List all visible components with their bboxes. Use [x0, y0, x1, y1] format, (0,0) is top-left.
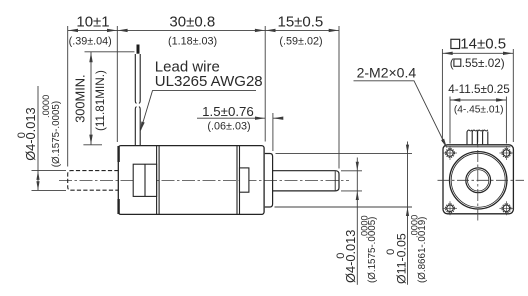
- svg-text:(: (: [450, 57, 454, 70]
- dim line 11.5: [450, 99, 506, 101]
- shaft circle: [468, 170, 489, 191]
- side view centerline: [59, 179, 349, 181]
- boss circle: [466, 168, 491, 193]
- 300MIN bottom tick: [83, 144, 102, 146]
- extension line A (rear shaft end): [67, 26, 69, 167]
- shaft top extension: [341, 170, 362, 172]
- svg-text:0: 0: [335, 253, 347, 259]
- left dia4 arrows: [36, 171, 39, 180]
- svg-text:0: 0: [16, 132, 28, 138]
- left dia4 dim line: [37, 86, 39, 190]
- joint line can/front housing: [236, 146, 238, 215]
- text □14±0.5: [451, 39, 460, 48]
- svg-text:UL3265 AWG28: UL3265 AWG28: [155, 73, 263, 90]
- arrows dim 10: [68, 29, 78, 32]
- front view horizontal centerline: [438, 179, 525, 181]
- boss top extension: [276, 153, 413, 155]
- right dia4 arrows: [356, 162, 359, 171]
- svg-text:1.5±0.76: 1.5±0.76: [202, 104, 254, 119]
- rear recess rectangle: [133, 164, 156, 196]
- screw hole M2 #1: [447, 150, 454, 157]
- svg-text:30±0.8: 30±0.8: [169, 13, 215, 30]
- hidden rear shaft (dashed): [68, 171, 119, 191]
- svg-text:(11.81MIN.): (11.81MIN.): [94, 70, 107, 131]
- extension line C (body right / boss face): [264, 26, 266, 142]
- svg-text:(4-.45±.01): (4-.45±.01): [454, 104, 504, 115]
- svg-text:.55±.02): .55±.02): [462, 57, 505, 70]
- flange top inner edge: [446, 146, 511, 148]
- dim line 1.5 left part: [197, 117, 265, 119]
- svg-text:10±1: 10±1: [76, 13, 109, 30]
- top dimension line: [68, 29, 339, 31]
- dia11 dim line: [407, 142, 409, 285]
- 2-M2 leader: [354, 81, 447, 147]
- right dia4 dim line: [356, 158, 358, 285]
- screw hole M2 #2: [503, 150, 510, 157]
- 300MIN dimension line: [90, 52, 92, 145]
- svg-text:.0000: .0000: [41, 95, 51, 118]
- svg-text:.0000: .0000: [410, 215, 420, 238]
- lead wire leader: [141, 91, 257, 131]
- rear shaft top extension: [32, 170, 67, 172]
- body left edge thick segments: [117, 146, 119, 162]
- dim line 14: [442, 52, 513, 54]
- extension line B (body left): [116, 26, 118, 142]
- svg-text:(.06±.03): (.06±.03): [207, 121, 250, 133]
- pilot boss: [265, 154, 273, 208]
- front view flange square: [443, 145, 513, 214]
- extension line D (shaft tip): [338, 26, 340, 169]
- pilot circle outer: [450, 152, 507, 209]
- front view vertical centerline: [477, 131, 479, 224]
- svg-text:14±0.5: 14±0.5: [460, 36, 506, 53]
- lead wire bundle (front view): [466, 132, 468, 145]
- svg-text:(1.18±.03): (1.18±.03): [168, 36, 217, 48]
- lead wire insulation: [135, 54, 140, 103]
- svg-text:0: 0: [385, 249, 397, 255]
- svg-text:.0000: .0000: [359, 215, 369, 238]
- dia11 arrows: [406, 145, 409, 154]
- svg-text:4-11.5±0.25: 4-11.5±0.25: [448, 83, 510, 96]
- screw hole M2 #4: [503, 205, 510, 212]
- svg-text:300MIN.: 300MIN.: [72, 74, 87, 122]
- svg-text:(Ø.1575-.0005): (Ø.1575-.0005): [51, 101, 62, 167]
- rear shaft bottom extension: [32, 189, 67, 191]
- front ext line left: [441, 49, 443, 142]
- front ext line right: [512, 49, 514, 142]
- arrows dim 30: [118, 29, 128, 32]
- svg-text:15±0.5: 15±0.5: [278, 13, 324, 30]
- gearbox body outline: [118, 146, 264, 215]
- shaft chamfer line: [334, 171, 336, 190]
- svg-text:2-M2×0.4: 2-M2×0.4: [357, 65, 417, 81]
- output shaft: [273, 171, 339, 191]
- ext line boss rear face: [272, 113, 274, 151]
- dim line 1.5 right part: [273, 117, 281, 119]
- arrows dim 15: [266, 29, 276, 32]
- svg-text:Ø11-0.05: Ø11-0.05: [395, 233, 409, 284]
- joint line rear endbell/can: [156, 146, 158, 215]
- front recess rectangle: [240, 168, 249, 192]
- screw hole M2 #3: [447, 205, 454, 212]
- pilot circle inner: [451, 153, 505, 207]
- ext lines 11.5: [449, 97, 451, 144]
- shaft bottom extension: [341, 190, 362, 192]
- 300MIN top tick: [85, 51, 135, 53]
- svg-text:(.39±.04): (.39±.04): [69, 35, 112, 47]
- svg-text:(.59±.02): (.59±.02): [279, 35, 322, 47]
- 300MIN arrows: [89, 52, 92, 62]
- boss bottom extension: [275, 206, 413, 208]
- lead wire stripped tip: [137, 45, 140, 54]
